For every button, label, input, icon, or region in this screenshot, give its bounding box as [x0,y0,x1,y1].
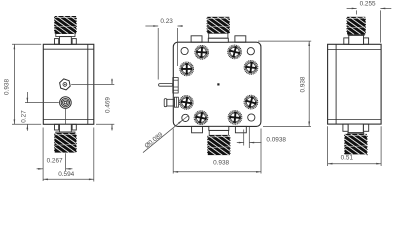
svg-text:0.27: 0.27 [21,110,28,123]
dimension 0.255 (connector offset, right view) [356,10,358,14]
top view: corner hole top-left [181,47,188,54]
dimension 0.51 (right view width) [327,126,329,166]
svg-text:0.267: 0.267 [47,158,63,165]
top view: SMA connector bottom [188,126,275,155]
right view: SMA connector top [330,17,400,45]
right side view: module body [328,44,382,124]
top view: cover screw 7 [193,110,209,126]
svg-text:0.938: 0.938 [213,160,229,167]
right view: bottom inner edge line [328,119,382,121]
dimension 0.0938 (hole edge offset) [243,130,245,146]
top view: cover screw 6 [242,94,259,111]
top view: cover screw 3 [180,62,194,76]
svg-text:0.594: 0.594 [58,171,74,178]
top view: coaxial feed-through jack [164,99,167,107]
dimension 0.27 (coax pin height) [25,102,59,104]
left side view: module body [43,44,94,124]
svg-text:0.255: 0.255 [360,1,376,8]
dimension 0.594 (left view width) [93,128,95,182]
left view: SMA connector top [37,16,114,44]
left view: cover plate edge line [87,44,89,124]
left view: top inner edge line [43,48,94,50]
left view: coaxial feed-through pin (concentric circles) [60,97,72,109]
right view: cover plate edge line [335,44,337,124]
svg-text:0.938: 0.938 [4,79,11,95]
svg-text:0.469: 0.469 [104,97,111,113]
dimension 0.938 (left view height) [12,43,41,45]
left view: SMA connector bottom [35,124,122,152]
top view: cover screw 8 [228,110,243,125]
svg-text:Ø0.089: Ø0.089 [144,131,165,150]
left view: DC feed-through hex pin [60,79,71,90]
top view: corner hole bottom-right [248,114,255,121]
right view: top inner edge line [328,49,382,51]
top view: corner hole bottom-left [182,114,189,121]
top view: cover screw 4 [178,95,194,111]
dimension 0.267 (connector offset) [42,128,44,182]
dimension 0.469 (hex pin height) [71,83,114,85]
dimension 0.23 (terminal pin length) [157,28,159,80]
dimension 0.938 (plate height, right of top view) [258,40,311,42]
top view: cover screw 5 [243,60,258,75]
svg-text:0.938: 0.938 [300,76,307,92]
dimension 0.938 (plate width, below top view) [172,129,174,174]
top view: center mark [217,83,219,85]
top view: module plate [173,42,261,126]
top view: cover screw 1 [194,45,209,60]
top view: cover screw 2 [226,44,242,60]
svg-text:0.23: 0.23 [160,18,173,25]
left view: bottom inner edge line [43,119,94,121]
svg-text:0.51: 0.51 [341,155,354,162]
leader diameter 0.089 (corner hole) [143,120,183,153]
top view: corner hole top-right [247,48,254,55]
top view: DC feed-through terminal pin [159,84,173,87]
right view: SMA connector bottom [324,124,400,155]
svg-text:0.0938: 0.0938 [266,137,286,144]
top view: SMA connector top [191,17,267,42]
